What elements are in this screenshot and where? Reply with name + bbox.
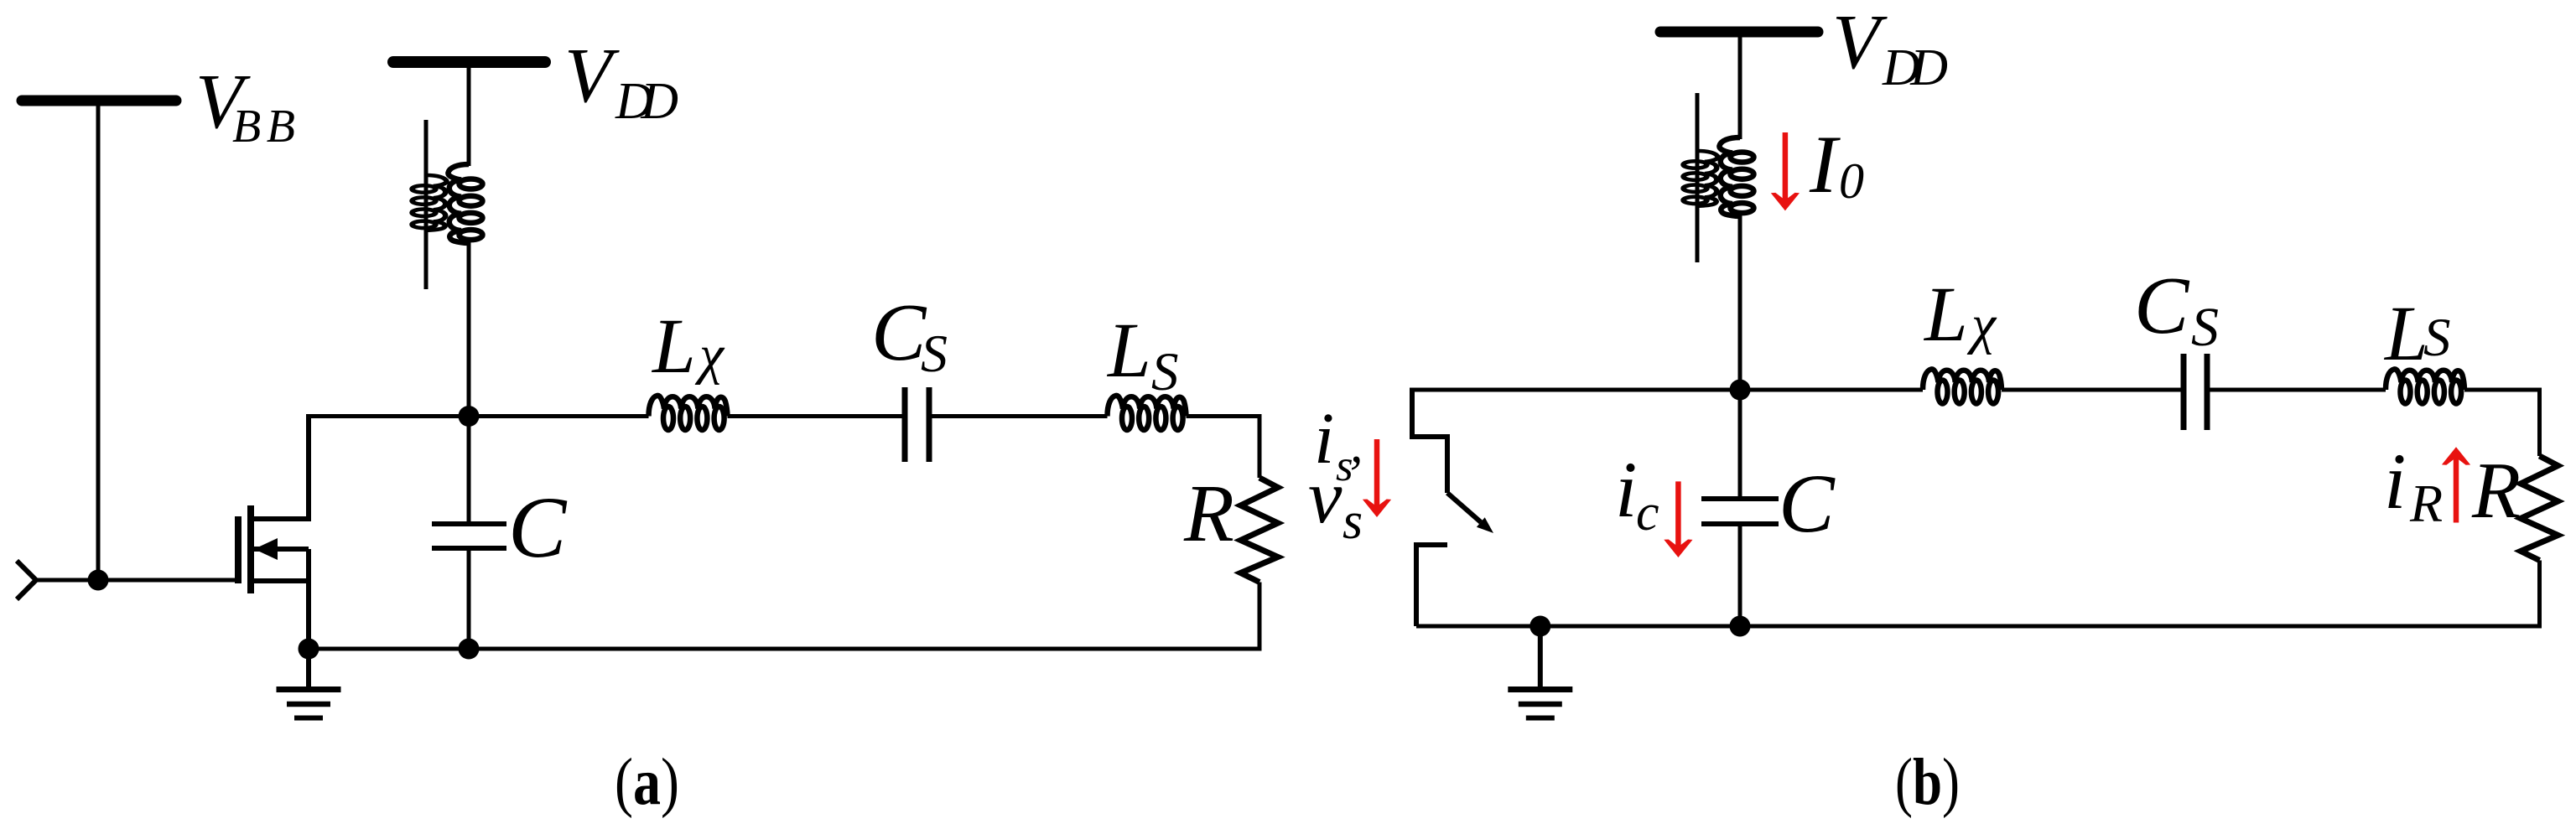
transistor M1 channel bar xyxy=(247,505,254,593)
wire C bottom plate to ground rail xyxy=(467,548,471,649)
svg-text:C: C xyxy=(508,479,568,576)
transistor M1 gate bar xyxy=(235,516,241,583)
label Ls (a) xyxy=(1106,308,1179,402)
wire node to C top plate (b) xyxy=(1738,390,1742,499)
svg-text:R: R xyxy=(2409,474,2443,533)
ground (b) xyxy=(1508,690,1572,718)
wire drain node horizontal xyxy=(309,414,1259,418)
node ground junction dot (b) xyxy=(1529,616,1550,637)
arrow is red xyxy=(1363,439,1391,517)
svg-text:BB: BB xyxy=(232,101,295,153)
svg-text:R: R xyxy=(1183,469,1234,559)
wire choke to drain node xyxy=(467,241,471,417)
svg-text:L: L xyxy=(2383,291,2428,377)
svg-text:i: i xyxy=(2384,437,2406,526)
label VBB xyxy=(195,59,295,153)
choke L0 stub wire (b) xyxy=(1696,93,1700,262)
svg-text:S: S xyxy=(921,324,948,383)
svg-text:i: i xyxy=(1615,445,1637,534)
node drain junction dot xyxy=(459,406,480,427)
capacitor Cs (b) plates xyxy=(2184,354,2207,430)
label Ls (b) xyxy=(2383,291,2451,377)
switch S blade xyxy=(1447,493,1481,522)
transistor M1 drain lead xyxy=(251,414,309,519)
wire VBB vertical xyxy=(96,106,101,580)
switch S lower lead xyxy=(1416,545,1447,626)
wire source to ground xyxy=(306,549,311,649)
arrow iR red xyxy=(2442,447,2470,522)
node junction dot (b) xyxy=(1730,380,1751,401)
svg-text:L: L xyxy=(651,303,696,390)
label I0 xyxy=(1809,119,1864,210)
svg-text:V: V xyxy=(1832,0,1888,85)
input port chevron xyxy=(17,561,36,599)
supply bar VDD (b) xyxy=(1660,27,1818,38)
svg-text:s: s xyxy=(1343,493,1363,550)
svg-text:I: I xyxy=(1809,119,1841,210)
svg-text:C: C xyxy=(2134,261,2190,351)
svg-text:χ: χ xyxy=(1966,294,1997,355)
node C bottom junction dot (a) xyxy=(459,639,480,660)
svg-text:DD: DD xyxy=(1882,39,1948,96)
choke L0 stub coil (b) xyxy=(1684,151,1718,206)
capacitor Cs (a) plates xyxy=(905,387,929,462)
svg-text:,: , xyxy=(1350,417,1363,474)
ground (a) xyxy=(277,690,341,718)
svg-text:S: S xyxy=(2191,297,2219,358)
node source junction dot (a) xyxy=(299,639,319,660)
inductor Lx (a) xyxy=(649,396,728,430)
label Lx (b) xyxy=(1923,272,1997,358)
transistor M1 source lead xyxy=(251,578,309,583)
wire VDD to choke xyxy=(467,68,471,166)
svg-text:v: v xyxy=(1308,454,1343,539)
svg-text:c: c xyxy=(1636,484,1659,541)
arrow ic red xyxy=(1664,481,1692,557)
wire C bottom plate to rail (b) xyxy=(1738,524,1742,626)
svg-text:DD: DD xyxy=(615,73,678,130)
switch S blade arrowhead xyxy=(1477,517,1493,533)
capacitor C (b) plates xyxy=(1701,499,1779,524)
node C bottom junction dot (b) xyxy=(1730,616,1751,637)
supply bar VDD xyxy=(393,56,545,68)
wire top right corner (b) xyxy=(2537,388,2542,457)
inductor Lx (b) xyxy=(1923,369,2002,403)
transistor M1 body arrow xyxy=(254,538,278,560)
wire resistor to bottom rail (b) xyxy=(2537,561,2542,629)
inductor Ls (a) xyxy=(1108,396,1187,430)
transistor M1 body lead xyxy=(254,547,309,552)
wire choke to node (b) xyxy=(1738,215,1742,390)
wire bottom rail (a) xyxy=(309,647,1259,651)
wire resistor to bottom rail (a) xyxy=(1258,583,1262,651)
svg-text:S: S xyxy=(1151,342,1179,402)
wire input to gate xyxy=(36,578,238,583)
label Cs (b) xyxy=(2134,261,2219,358)
capacitor C (a) plates xyxy=(432,524,506,548)
svg-text:R: R xyxy=(2471,446,2521,535)
wire ground stem (a) xyxy=(306,649,311,689)
svg-text:L: L xyxy=(1106,308,1151,394)
label Cs (a) xyxy=(871,288,948,383)
label ic xyxy=(1615,445,1659,541)
svg-text:S: S xyxy=(2423,308,2451,368)
resistor R (b) zigzag xyxy=(2521,456,2558,561)
resistor R (a) zigzag xyxy=(1241,478,1279,583)
label Lx (a) xyxy=(651,303,725,390)
choke L1 stub coil xyxy=(413,175,447,231)
wire ground stem (b) xyxy=(1538,626,1543,689)
switch S upper lead xyxy=(1412,388,1447,494)
wire top right corner (a) xyxy=(1258,414,1262,478)
svg-text:χ: χ xyxy=(694,324,725,386)
label is vs xyxy=(1308,397,1363,550)
svg-text:V: V xyxy=(564,33,620,119)
arrow I0 red xyxy=(1771,132,1800,210)
svg-text:L: L xyxy=(1923,272,1968,358)
supply bar VBB xyxy=(22,96,176,106)
svg-text:(a): (a) xyxy=(615,746,679,819)
wire bottom rail (b) xyxy=(1416,624,2540,629)
label iR xyxy=(2384,437,2443,533)
svg-text:0: 0 xyxy=(1839,153,1864,209)
wire drain node to C top plate xyxy=(467,417,471,525)
label VDD xyxy=(564,33,678,130)
inductor Ls (b) xyxy=(2386,369,2464,403)
node gate junction dot xyxy=(88,570,109,591)
svg-text:C: C xyxy=(1779,457,1836,550)
label VDD (b) xyxy=(1832,0,1948,96)
wire node line (b) xyxy=(1412,388,2540,392)
wire VDD to choke (b) xyxy=(1738,37,1742,139)
choke L1 stub wire xyxy=(424,120,428,289)
svg-text:C: C xyxy=(871,288,927,378)
choke L0 main coil (b) xyxy=(1719,137,1753,216)
svg-text:(b): (b) xyxy=(1895,746,1960,819)
choke L1 main coil xyxy=(448,164,482,243)
